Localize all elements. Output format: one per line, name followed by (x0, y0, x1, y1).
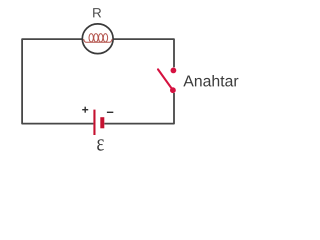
switch label Anahtar (183, 75, 238, 87)
resistor R1 ellipse body (82, 24, 113, 54)
resistor R1 coil (84, 34, 113, 43)
resistor label R (93, 8, 101, 17)
switch S1 lever (158, 69, 173, 90)
battery B1 positive long plate (93, 110, 95, 135)
wire: left + top + upper-right segment of loop (22, 39, 174, 124)
battery plus sign (82, 107, 88, 113)
wire: lower-right + bottom-right segment of loop (104, 93, 174, 124)
switch S1 lower contact dot (170, 87, 176, 93)
battery B1 negative short plate (100, 117, 104, 128)
battery label epsilon (97, 139, 104, 151)
battery minus sign (107, 111, 113, 113)
switch S1 upper contact dot (171, 68, 177, 74)
